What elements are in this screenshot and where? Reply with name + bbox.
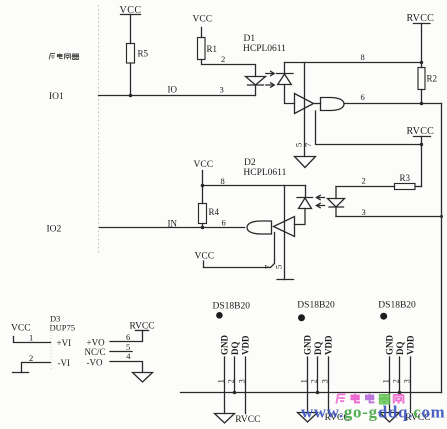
optocoupler D2 designator <box>243 158 286 178</box>
amplifier triangle D2 (mirrored) <box>274 217 295 237</box>
svg-text:5: 5 <box>274 265 284 269</box>
wire DQ U1 <box>234 357 236 393</box>
svg-text:2: 2 <box>226 379 235 383</box>
svg-text:IN: IN <box>168 219 178 229</box>
ground (D1 pin 5) <box>295 157 316 168</box>
svg-text:R1: R1 <box>207 44 218 54</box>
wire GND U3 <box>389 357 391 413</box>
resistor R5 <box>127 44 149 64</box>
junction rail/RVCC <box>420 61 423 64</box>
svg-text:GND: GND <box>385 335 395 356</box>
svg-text:6: 6 <box>222 218 226 228</box>
junction R5/IO1 <box>129 94 133 98</box>
svg-text:3: 3 <box>362 207 366 217</box>
wire pin 7 of D1 to RVCC line <box>316 111 422 145</box>
ground (U2 GND) <box>298 413 318 423</box>
wire VCC to R5 <box>130 15 132 44</box>
LED inside D2 <box>328 187 345 217</box>
wire DQ U2 <box>317 357 319 393</box>
junction R4/IN <box>201 226 205 230</box>
wire R3 right lead <box>415 186 422 188</box>
svg-text:VDD: VDD <box>406 335 416 355</box>
svg-text:-VO: -VO <box>87 358 103 368</box>
svg-text:R5: R5 <box>138 49 149 59</box>
svg-text:+VO: +VO <box>87 338 106 348</box>
wire pin 8 rail of D2 <box>203 185 306 187</box>
resistor R2 <box>418 68 437 90</box>
svg-text:www.go-gddq.com: www.go-gddq.com <box>301 403 445 422</box>
junction DQ U1 / bus <box>233 391 237 395</box>
svg-text:3: 3 <box>320 379 329 383</box>
wire RVCC to R2 <box>421 24 423 68</box>
svg-text:2: 2 <box>29 353 33 363</box>
wire pin 5 of D3 <box>110 351 132 353</box>
svg-text:D2: D2 <box>244 158 256 168</box>
junction DQ U2 / bus <box>316 391 320 395</box>
svg-text:DS18B20: DS18B20 <box>297 301 335 311</box>
svg-text:5: 5 <box>294 143 304 147</box>
dotted body edge D3 <box>50 323 52 369</box>
svg-text:3: 3 <box>402 379 411 383</box>
label: microprocessor (CJK) <box>49 53 79 59</box>
svg-text:VCC: VCC <box>194 160 214 170</box>
svg-text:4: 4 <box>126 351 131 361</box>
svg-text:R2: R2 <box>427 74 438 84</box>
svg-text:DS18B20: DS18B20 <box>378 301 416 311</box>
wire R5 to IO1 <box>130 63 132 96</box>
svg-text:1: 1 <box>381 379 390 383</box>
svg-text:DQ: DQ <box>230 342 240 356</box>
svg-text:IO1: IO1 <box>49 92 64 102</box>
wire pin 6 of D3 to RVCC <box>110 331 143 342</box>
wire R2 to pin6 line <box>421 90 423 104</box>
junction pin3 D2 corner <box>440 215 443 218</box>
junction VCC/pin8 D2 <box>201 184 205 188</box>
svg-text:8: 8 <box>361 52 365 62</box>
wire VCC to rail D2 <box>202 171 204 204</box>
wire RVCC down to R3 <box>421 137 423 187</box>
svg-text:IO2: IO2 <box>47 225 62 235</box>
wire pin 8 rail of D1 <box>285 62 422 64</box>
svg-text:NC/C: NC/C <box>85 347 106 357</box>
watermark CJK line <box>336 394 403 404</box>
output gate D1 <box>321 98 345 111</box>
photodiode inside D2 <box>295 186 313 225</box>
svg-text:HCPL0611: HCPL0611 <box>243 168 286 178</box>
svg-text:2: 2 <box>221 54 225 64</box>
svg-text:R4: R4 <box>209 207 220 217</box>
ground (D2 pin 5) <box>277 279 294 281</box>
svg-text:IO: IO <box>168 85 178 95</box>
power RVCC (top right) <box>407 13 435 24</box>
svg-text:DQ: DQ <box>395 342 405 356</box>
wire pin 6 of D1 (output) <box>344 103 442 105</box>
wire amp to gate D1 <box>314 103 321 105</box>
dashed boundary line (microcontroller side) <box>98 5 100 255</box>
resistor R3 <box>395 173 416 190</box>
svg-text:1: 1 <box>299 379 308 383</box>
wire pin 3 of D2 <box>336 216 442 218</box>
amplifier triangle D1 <box>295 94 314 114</box>
svg-text:D1: D1 <box>244 34 256 44</box>
ground (D3 -VI) <box>13 372 29 374</box>
svg-text:RVCC: RVCC <box>407 13 435 24</box>
wire R1 to pin 2 of D1 <box>202 60 256 77</box>
output gate D2 (mirrored) <box>247 221 272 234</box>
svg-text:DUP75: DUP75 <box>50 322 76 332</box>
sensor U1 body dot <box>216 312 223 319</box>
wire GND U1 <box>224 357 226 414</box>
wire VDD U2 <box>328 357 330 413</box>
ground (D3 -VO) <box>133 373 153 383</box>
svg-text:DS18B20: DS18B20 <box>213 301 251 311</box>
wire IO1 line <box>99 95 256 97</box>
wire pin 5 of D1 to ground <box>304 63 306 157</box>
svg-text:RVCC: RVCC <box>407 126 435 137</box>
svg-text:VDD: VDD <box>241 335 251 355</box>
wire IN line (IO2 to gate D2) <box>100 227 245 229</box>
svg-text:VCC: VCC <box>11 323 31 333</box>
wire pin 7 of D2 to VCC <box>204 233 275 268</box>
svg-text:2: 2 <box>362 176 366 186</box>
wire pin 2 of D2 to R3 <box>336 186 395 188</box>
svg-text:7: 7 <box>303 143 313 147</box>
svg-text:-VI: -VI <box>58 358 71 368</box>
svg-text:HCPL0611: HCPL0611 <box>243 44 286 54</box>
power VCC (top left) <box>120 5 142 16</box>
ground (U1 GND) <box>215 414 235 424</box>
wire pin 4 of D3 to ground <box>110 362 143 373</box>
junction RVCC/pin7 line <box>420 143 423 146</box>
wire DQ bus <box>181 392 442 394</box>
svg-text:GND: GND <box>220 335 230 356</box>
svg-text:2: 2 <box>391 379 400 383</box>
wire output D1 down to D2 input and DQ bus <box>441 104 443 393</box>
light arrows D2 <box>316 195 324 207</box>
svg-text:6: 6 <box>126 332 130 342</box>
svg-text:R3: R3 <box>400 173 411 183</box>
wire VDD U1 <box>245 357 247 414</box>
sensor U3 body dot <box>380 313 387 320</box>
resistor R4 <box>199 204 220 224</box>
photodiode inside D1 <box>277 63 295 104</box>
wire pin 5 of D2 to ground <box>284 186 286 280</box>
wire DQ U3 <box>399 357 401 393</box>
wire pin 1 of D3 <box>14 337 51 343</box>
power RVCC (middle right) <box>407 126 435 137</box>
power RVCC (D3 output) <box>130 322 155 332</box>
light arrows D1 <box>266 71 274 87</box>
svg-text:8: 8 <box>221 176 225 186</box>
svg-text:RVCC: RVCC <box>235 415 260 425</box>
svg-text:VCC: VCC <box>195 251 215 261</box>
svg-text:3: 3 <box>237 379 246 383</box>
svg-text:7: 7 <box>263 265 273 269</box>
wire R4 to IN line <box>202 224 204 228</box>
svg-text:VDD: VDD <box>324 335 334 355</box>
svg-text:+VI: +VI <box>57 338 72 348</box>
svg-text:1: 1 <box>216 379 225 383</box>
resistor R1 <box>198 38 218 60</box>
wire pin 2 of D3 <box>22 363 51 373</box>
wire GND U2 <box>307 357 309 413</box>
junction R2/pin6 <box>420 102 424 106</box>
svg-text:VCC: VCC <box>193 15 213 25</box>
wire VDD U3 <box>410 357 412 413</box>
svg-text:2: 2 <box>309 379 318 383</box>
svg-text:3: 3 <box>220 85 224 95</box>
svg-text:DQ: DQ <box>313 342 323 356</box>
svg-text:GND: GND <box>303 335 313 356</box>
ground (U3 GND) <box>380 413 400 423</box>
svg-text:1: 1 <box>29 333 33 343</box>
svg-text:6: 6 <box>361 92 365 102</box>
junction DQ U3 / bus <box>398 391 402 395</box>
wire VCC to R1 <box>201 28 203 38</box>
LED inside D1 <box>246 77 266 96</box>
optocoupler D1 designator <box>243 34 286 54</box>
sensor U2 body dot <box>298 314 305 321</box>
converter D3 designator <box>50 314 76 333</box>
